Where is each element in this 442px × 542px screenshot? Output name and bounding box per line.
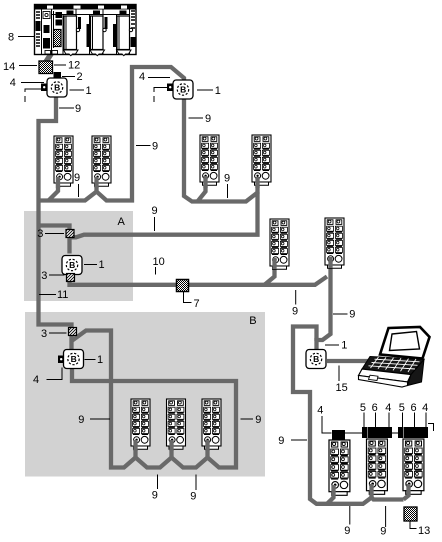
addressing connector A bottom (3) xyxy=(67,274,75,282)
laptop right side xyxy=(408,360,425,386)
label 9 long horizontal xyxy=(154,217,156,231)
labels 5 6 4 5 6 4 xyxy=(364,413,426,428)
svg-text:6: 6 xyxy=(411,402,417,414)
slave module M6 group 3 xyxy=(325,218,344,268)
label 3 area A bottom xyxy=(49,274,65,276)
wire: drop module 5 xyxy=(265,256,275,285)
laptop keyboard deck xyxy=(362,357,424,375)
wire: bottom U of first module group, up middle, to master U2 and second module group xyxy=(39,67,258,202)
wire: branch in area B from addressing point down to module bus xyxy=(72,331,237,468)
label 3 area A top xyxy=(45,233,64,235)
label 9 group2 bus xyxy=(227,184,229,198)
label 12 connector xyxy=(54,64,66,66)
label 4 master B xyxy=(47,368,63,380)
svg-text:7: 7 xyxy=(194,298,200,310)
label 9 bus right xyxy=(295,290,297,305)
svg-text:14: 14 xyxy=(3,61,15,73)
wire: module 6 drop down to PC master xyxy=(317,256,331,352)
svg-text:4: 4 xyxy=(422,402,428,414)
label 9 br bus 1 xyxy=(349,506,351,525)
svg-text:1: 1 xyxy=(215,85,221,97)
svg-text:2: 2 xyxy=(77,71,83,83)
svg-text:9: 9 xyxy=(78,414,84,426)
zone B shaded area xyxy=(25,312,265,477)
slave module M2 group 1 xyxy=(92,136,111,186)
slave module M4 group 2 xyxy=(252,135,271,185)
svg-text:12: 12 xyxy=(68,60,80,72)
label 10 xyxy=(155,267,157,275)
svg-text:4: 4 xyxy=(317,405,323,417)
CPU slot xyxy=(56,12,63,18)
svg-text:4: 4 xyxy=(385,402,391,414)
svg-text:A: A xyxy=(118,216,126,228)
label 9 drop bottom right xyxy=(291,439,307,441)
slave module M3 group 2 xyxy=(200,135,219,185)
label 2 connector xyxy=(62,76,75,78)
master U2 xyxy=(167,80,193,99)
master PC xyxy=(306,350,326,369)
slave module M10 bottom right xyxy=(329,440,350,495)
label 1 master B xyxy=(85,359,96,361)
svg-text:10: 10 xyxy=(153,256,165,268)
master A xyxy=(62,256,82,275)
wire: loop over PC master to bottom right group xyxy=(293,327,404,504)
label 8 rack xyxy=(18,36,34,38)
svg-text:9: 9 xyxy=(344,525,350,537)
svg-text:9: 9 xyxy=(152,205,158,217)
svg-text:6: 6 xyxy=(372,402,378,414)
svg-text:4: 4 xyxy=(139,71,145,83)
repeater 7 xyxy=(177,280,189,292)
label 13 xyxy=(410,522,417,529)
slave module M5 group 3 xyxy=(270,219,289,269)
laptop front apron xyxy=(359,369,412,382)
label 9 middle riser xyxy=(136,145,151,147)
svg-text:9: 9 xyxy=(74,172,80,184)
svg-text:1: 1 xyxy=(341,340,347,352)
module doors xyxy=(64,11,80,56)
svg-text:11: 11 xyxy=(57,289,68,301)
svg-text:3: 3 xyxy=(37,228,43,240)
label 1 master A xyxy=(84,264,97,266)
svg-text:9: 9 xyxy=(349,309,355,321)
zone A shaded area xyxy=(24,211,133,301)
connector 5 on module M11 xyxy=(362,427,367,438)
wire: area A feed branch xyxy=(39,226,70,254)
feet xyxy=(45,51,51,55)
laptop lid xyxy=(380,327,430,359)
label 3 area B xyxy=(49,332,67,334)
svg-text:9: 9 xyxy=(190,490,196,502)
addressing stub U2 xyxy=(154,88,168,93)
label 9 area B right xyxy=(241,418,254,420)
label 9 riser right xyxy=(333,313,348,315)
label 9 area B bus 1 xyxy=(157,475,159,490)
svg-text:4: 4 xyxy=(33,374,39,386)
addressing connector A top (3) xyxy=(66,230,74,238)
PLC rack S7 xyxy=(35,5,137,56)
svg-text:9: 9 xyxy=(292,305,298,317)
label 15 laptop cable xyxy=(338,366,340,382)
connector 4 on module M10 xyxy=(332,430,345,440)
svg-text:9: 9 xyxy=(380,525,386,537)
left strip tiny text xyxy=(36,12,40,46)
svg-text:4: 4 xyxy=(10,77,16,89)
svg-text:9: 9 xyxy=(205,113,211,125)
connector link lines xyxy=(345,424,434,434)
wire stubs to area B slave modules xyxy=(136,444,208,459)
slave module M11 bottom right xyxy=(367,439,388,494)
svg-text:B: B xyxy=(249,315,256,327)
connector 6 and 4 on module M11 xyxy=(368,427,393,438)
svg-text:1: 1 xyxy=(97,354,103,366)
svg-text:8: 8 xyxy=(8,32,14,44)
label 1 master PC xyxy=(325,344,339,346)
wire: PC master to laptop xyxy=(327,359,384,363)
label 4 master U1 xyxy=(21,82,44,84)
label 9 area B bus 2 xyxy=(195,475,197,491)
label 1 master U2 xyxy=(197,89,213,91)
svg-text:5: 5 xyxy=(399,402,405,414)
svg-text:3: 3 xyxy=(41,270,47,282)
wire stubs first group modules xyxy=(49,176,206,201)
PS slot xyxy=(43,12,50,19)
label 4 master U2 xyxy=(148,77,170,79)
svg-text:13: 13 xyxy=(418,525,430,537)
keyboard key texture xyxy=(369,357,420,372)
svg-text:9: 9 xyxy=(255,414,261,426)
slave module M1 group 1 xyxy=(54,136,73,186)
wire: drop from module down to long horizontal to area A xyxy=(72,193,258,238)
wire: MPI cable into rack xyxy=(46,47,56,63)
svg-text:5: 5 xyxy=(360,402,366,414)
svg-text:9: 9 xyxy=(75,103,81,115)
master B xyxy=(58,350,84,369)
right strip xyxy=(131,11,135,28)
connector 12 (hatched) xyxy=(39,61,53,74)
svg-text:15: 15 xyxy=(336,382,348,394)
label 9 wire U2 xyxy=(189,117,204,119)
slave module M9 area B xyxy=(202,399,221,449)
addressing stub U1 xyxy=(25,89,42,92)
connector 13 (hatched) xyxy=(404,507,417,521)
connector 5 on module M12 xyxy=(398,427,403,438)
svg-text:9: 9 xyxy=(278,435,284,447)
touchpad xyxy=(369,375,379,380)
laptop xyxy=(359,327,430,387)
laptop base edge xyxy=(359,376,408,388)
label 11 xyxy=(39,294,56,296)
svg-text:9: 9 xyxy=(224,172,230,184)
label 9 wire U1 xyxy=(59,107,74,109)
slave module M8 area B xyxy=(167,399,186,449)
wire: area A output bus to right with repeater xyxy=(70,277,328,285)
slave module M12 bottom right xyxy=(403,439,424,494)
wire: AS-i cable from master U1 down-left and down through areas A and B xyxy=(39,97,72,351)
label 1 master U1 xyxy=(70,89,85,91)
connector 6 and 4 on module M12 xyxy=(404,427,429,438)
label 9 br bus 2 xyxy=(385,506,387,527)
connector 2 (black) xyxy=(54,72,62,78)
label 9 group1 bus xyxy=(78,184,80,197)
svg-text:1: 1 xyxy=(99,259,105,271)
svg-text:9: 9 xyxy=(152,140,158,152)
laptop screen xyxy=(390,332,420,351)
addressing connector B (3) xyxy=(69,328,77,336)
svg-text:9: 9 xyxy=(152,489,158,501)
svg-text:1: 1 xyxy=(86,85,92,97)
master U1 xyxy=(41,78,67,97)
label 14 cable xyxy=(19,65,37,67)
wire: spurs bottom right modules xyxy=(327,484,409,504)
label 4 br module1 xyxy=(322,416,332,433)
label 7 repeater xyxy=(184,292,192,303)
svg-text:3: 3 xyxy=(41,328,47,340)
wire stubs into module sockets (drawn over modules) xyxy=(58,176,409,496)
label 9 area B left xyxy=(90,418,110,420)
slave module M7 area B xyxy=(131,399,150,449)
